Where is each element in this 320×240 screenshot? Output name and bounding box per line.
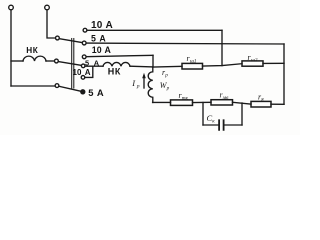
- svg-text:НК: НК: [26, 46, 39, 55]
- wire shunt row right: [263, 62, 284, 64]
- resistor rtk: [171, 100, 193, 106]
- capacitor Ck plates: [219, 120, 224, 130]
- svg-text:10 А: 10 А: [92, 45, 112, 55]
- node fuse row1: [83, 28, 87, 32]
- svg-text:мв: мв: [222, 95, 229, 101]
- terminal T1: [9, 5, 14, 10]
- wire branch A horizontal to coil: [11, 60, 23, 62]
- switch blade 2: [58, 62, 81, 66]
- wire junction vertical x222: [221, 30, 223, 65]
- wire vertical x153: [152, 55, 154, 67]
- svg-text:5 А: 5 А: [88, 87, 104, 98]
- wire cap branch left drop: [202, 103, 204, 126]
- wire bottom row right: [271, 103, 284, 105]
- svg-text:5 А: 5 А: [91, 33, 106, 43]
- svg-text:р: р: [136, 84, 140, 90]
- node fuse row5: [81, 76, 85, 80]
- wire row4 to coil: [85, 65, 103, 67]
- node contact A: [55, 59, 59, 63]
- svg-text:р: р: [164, 72, 168, 78]
- switch blade 3: [59, 86, 81, 91]
- wire cap branch right drop: [241, 103, 243, 125]
- arrow Ip: [143, 76, 145, 88]
- switch blade 1: [59, 39, 82, 43]
- node fuse row3: [82, 55, 86, 59]
- svg-text:р: р: [166, 86, 170, 92]
- wire shunt row left: [153, 65, 182, 68]
- node row6 dot: [81, 90, 85, 94]
- svg-text:НК: НК: [108, 67, 121, 77]
- wire row1 to junction: [87, 29, 222, 31]
- wire row5 riser: [85, 66, 93, 77]
- node fuse row2: [82, 41, 86, 45]
- resistor rya: [251, 101, 271, 107]
- wire shunt row mid: [203, 64, 243, 66]
- resistor rsh1: [182, 63, 203, 69]
- svg-text:10: 10: [73, 68, 82, 77]
- svg-text:к: к: [212, 119, 215, 125]
- wire bottom row seg2: [193, 101, 212, 103]
- svg-text:10 А: 10 А: [91, 20, 113, 31]
- terminal T2: [45, 5, 50, 10]
- svg-text:я: я: [260, 97, 264, 103]
- switch link bar: [71, 39, 73, 89]
- wire after left coil: [46, 60, 54, 62]
- svg-text:ш2: ш2: [251, 57, 258, 63]
- wire bottom row left: [153, 101, 171, 103]
- coil HK right: [103, 62, 130, 66]
- wire cap leads: [203, 124, 242, 126]
- svg-text:тк: тк: [182, 95, 189, 101]
- wire T1 vertical: [10, 10, 12, 86]
- resistor rsh2: [242, 61, 263, 66]
- wire row4 after coil: [130, 65, 153, 68]
- coil HK left: [23, 56, 46, 61]
- wire bottom row seg3: [233, 102, 252, 104]
- wire T2 vertical and bend: [47, 10, 55, 38]
- node fuse row4: [81, 64, 85, 68]
- svg-text:А: А: [85, 68, 91, 77]
- svg-text:I: I: [131, 78, 136, 88]
- coil Wp spine and humps: [148, 67, 153, 102]
- wire right bus: [283, 44, 285, 104]
- node contact B: [55, 84, 59, 88]
- wire row3: [86, 55, 153, 56]
- svg-text:ш1: ш1: [190, 58, 197, 64]
- wire row2 long: [86, 42, 284, 45]
- wire branch B bottom: [11, 85, 55, 87]
- resistor rmv: [211, 100, 233, 105]
- node contact C: [56, 36, 60, 40]
- svg-text:5 А: 5 А: [85, 58, 100, 67]
